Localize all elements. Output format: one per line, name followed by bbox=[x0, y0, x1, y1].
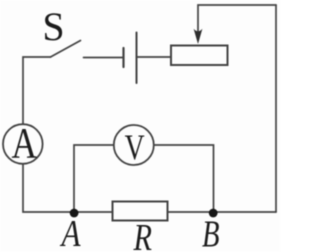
svg-text:B: B bbox=[202, 214, 220, 252]
wire bottom left bbox=[23, 164, 113, 212]
battery negative plate bbox=[122, 48, 124, 67]
svg-text:A: A bbox=[59, 213, 81, 252]
resistor R body bbox=[113, 202, 168, 221]
rheostat body bbox=[171, 46, 228, 66]
battery positive plate bbox=[136, 33, 138, 84]
svg-text:S: S bbox=[42, 4, 64, 49]
wire node A to voltmeter bbox=[74, 145, 114, 212]
switch S bbox=[51, 41, 81, 58]
wire rheostat slider to top bbox=[198, 5, 276, 31]
wire right side down bbox=[275, 5, 277, 212]
ammeter A1 body bbox=[3, 124, 43, 164]
wire left-top corner to switch bbox=[23, 57, 51, 124]
rheostat slider arrowhead bbox=[194, 29, 203, 44]
voltmeter V1 body bbox=[114, 125, 154, 165]
wire bottom right bbox=[168, 211, 277, 213]
node B junction dot bbox=[209, 209, 218, 218]
svg-text:R: R bbox=[133, 217, 152, 252]
wire voltmeter to node B bbox=[154, 145, 214, 212]
wire switch to battery bbox=[84, 57, 124, 59]
wire battery to rheostat bbox=[137, 56, 172, 58]
svg-text:A: A bbox=[11, 120, 37, 167]
svg-text:V: V bbox=[125, 127, 145, 167]
node A junction dot bbox=[70, 209, 79, 218]
